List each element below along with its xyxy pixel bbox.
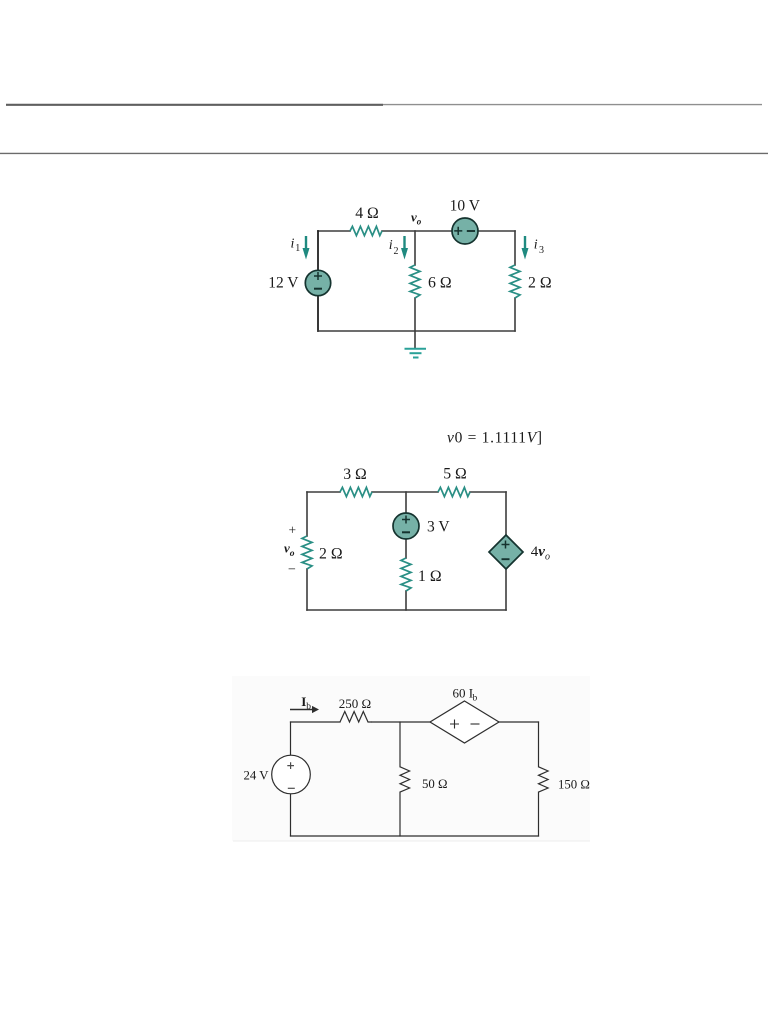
resistor 2 Ohm (right) (510, 265, 520, 298)
resistor 6 Ohm (410, 265, 420, 298)
svg-text:4vo: 4vo (531, 544, 550, 563)
svg-text:1: 1 (295, 243, 300, 254)
svg-text:2 Ω: 2 Ω (528, 275, 552, 292)
wire bottom (318, 330, 515, 332)
second header rule (0, 152, 768, 154)
wire middle branch c2 lower (405, 591, 407, 610)
current arrow Ib (290, 706, 319, 713)
resistor 4 Ohm (350, 226, 382, 235)
wire left branch (317, 231, 319, 331)
resistor 1 Ohm (401, 558, 411, 591)
svg-text:b: b (306, 702, 311, 712)
voltage source 12V circle (305, 270, 330, 295)
svg-text:150 Ω: 150 Ω (558, 778, 590, 792)
svg-text:i: i (389, 238, 393, 253)
current arrow i3 (522, 236, 529, 260)
wire top c2 mid (372, 491, 438, 493)
resistor 2 Ohm (left, vo) (302, 536, 312, 569)
svg-text:v0 = 1.1111V]: v0 = 1.1111V] (447, 430, 543, 447)
faint artifact line below circuit 3 (233, 840, 590, 842)
header rule thin segment (383, 104, 762, 106)
wire middle branch upper (414, 231, 416, 265)
svg-text:vo: vo (411, 209, 422, 226)
wire right branch lower (514, 298, 516, 331)
resistor 3 Ohm (340, 487, 372, 496)
wire bottom c3 (291, 835, 539, 837)
svg-text:vo: vo (284, 541, 295, 560)
svg-text:24 V: 24 V (243, 769, 269, 783)
current arrow i1 (303, 236, 310, 260)
svg-text:2 Ω: 2 Ω (319, 545, 343, 562)
voltage source 24V circle (272, 755, 311, 794)
wire middle branch lower (414, 298, 416, 331)
wire bottom c2 (307, 609, 506, 611)
wire top left of 4ohm (318, 230, 350, 232)
resistor 50 Ohm (400, 767, 410, 792)
svg-text:1 Ω: 1 Ω (418, 568, 442, 585)
svg-text:+: + (289, 523, 297, 538)
svg-text:10 V: 10 V (450, 198, 481, 215)
wire top left c3 (291, 721, 341, 723)
resistor 250 Ohm (340, 712, 372, 723)
wire right branch c3 upper (538, 722, 540, 767)
voltage source 10V circle (452, 218, 478, 244)
svg-text:50 Ω: 50 Ω (422, 777, 448, 791)
wire right branch c2 (505, 492, 507, 610)
wire top c3 between resistor and diamond (372, 721, 430, 723)
svg-text:−: − (288, 563, 296, 578)
current arrow i2 (401, 236, 408, 260)
wire middle branch c3 lower (399, 792, 401, 836)
svg-text:250 Ω: 250 Ω (339, 696, 371, 711)
svg-text:i: i (291, 237, 295, 252)
svg-text:b: b (473, 693, 478, 703)
svg-text:3: 3 (539, 245, 544, 256)
svg-text:4 Ω: 4 Ω (355, 205, 379, 222)
wire top right c3 (499, 721, 539, 723)
svg-text:5 Ω: 5 Ω (443, 466, 467, 483)
wire top c2 left (307, 491, 340, 493)
resistor 5 Ohm (438, 487, 470, 496)
svg-text:60 I: 60 I (453, 685, 474, 700)
resistor 150 Ohm (539, 767, 549, 792)
svg-text:12 V: 12 V (268, 275, 299, 292)
header rule thick segment (6, 104, 383, 106)
wire left branch c2 lower (306, 569, 308, 610)
svg-text:i: i (534, 237, 538, 252)
wire left branch c2 upper (306, 492, 308, 536)
dependent source 4vo diamond (489, 535, 523, 569)
wire top c2 right (470, 491, 506, 493)
wire middle branch c3 upper (399, 722, 401, 767)
svg-text:3 V: 3 V (427, 519, 450, 536)
scanned figure backdrop (232, 676, 590, 841)
svg-text:3 Ω: 3 Ω (343, 466, 367, 483)
voltage source 3V circle (393, 513, 419, 539)
svg-text:2: 2 (394, 246, 399, 257)
wire left branch c3 (290, 722, 292, 836)
wire top vo segment (382, 230, 515, 232)
ground (405, 331, 427, 358)
svg-text:6 Ω: 6 Ω (428, 275, 452, 292)
dependent source 60Ib diamond (430, 701, 499, 743)
wire middle branch c2 (405, 492, 407, 558)
wire right branch upper (514, 231, 516, 265)
wire right branch c3 lower (538, 792, 540, 836)
